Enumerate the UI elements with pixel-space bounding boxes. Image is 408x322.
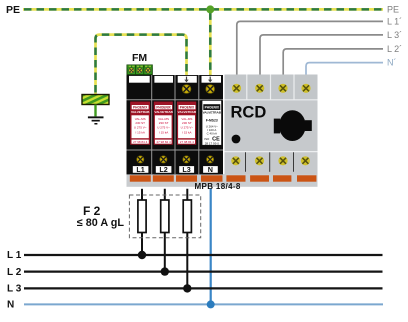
svg-text:≤ 80 A gL: ≤ 80 A gL [77, 217, 125, 229]
svg-text:U 275 V~: U 275 V~ [181, 126, 194, 130]
svg-text:VALVETRAB: VALVETRAB [178, 110, 197, 114]
svg-text:230 ST: 230 ST [182, 121, 192, 125]
svg-text:U 275 V~: U 275 V~ [134, 126, 147, 130]
svg-text:VALVETRAB: VALVETRAB [131, 110, 150, 114]
svg-text:VALVETRAB: VALVETRAB [154, 110, 173, 114]
svg-text:N: N [208, 165, 213, 174]
svg-text:U 275 V~: U 275 V~ [157, 126, 170, 130]
svg-text:L 2: L 2 [7, 267, 22, 278]
svg-text:ISO: ISO [204, 137, 210, 141]
svg-text:RCD: RCD [231, 104, 267, 122]
svg-text:N´: N´ [387, 58, 397, 68]
svg-text:PE: PE [6, 4, 20, 16]
svg-text:L 3: L 3 [7, 284, 22, 295]
svg-text:C 40 kA: C 40 kA [207, 132, 217, 136]
svg-text:I 15 kA: I 15 kA [136, 130, 145, 134]
svg-text:VALVETRAB: VALVETRAB [203, 111, 222, 115]
svg-text:27 98 84 4: 27 98 84 4 [180, 140, 195, 144]
svg-text:L 1´: L 1´ [387, 17, 402, 27]
svg-text:F 2: F 2 [83, 204, 101, 218]
svg-text:PHOENIX: PHOENIX [205, 106, 220, 110]
svg-text:PHOENIX: PHOENIX [133, 105, 148, 109]
svg-text:MPB 18/4-8: MPB 18/4-8 [195, 182, 241, 191]
svg-text:27 98 84 4: 27 98 84 4 [157, 140, 172, 144]
svg-text:L2: L2 [159, 165, 167, 174]
svg-text:I 15 kA: I 15 kA [182, 130, 191, 134]
svg-text:N: N [7, 299, 14, 310]
svg-text:28 17 99 0: 28 17 99 0 [205, 141, 220, 145]
svg-text:PHOENIX: PHOENIX [180, 105, 195, 109]
svg-text:27 98 84 4: 27 98 84 4 [133, 140, 148, 144]
svg-text:L3: L3 [182, 165, 190, 174]
svg-text:L 1: L 1 [7, 250, 22, 261]
svg-text:L 3´: L 3´ [387, 30, 402, 40]
svg-text:230 ST: 230 ST [159, 121, 169, 125]
svg-text:FM: FM [132, 52, 147, 64]
svg-text:F-MS23: F-MS23 [206, 118, 218, 122]
svg-text:PE: PE [387, 4, 399, 14]
svg-text:L 2´: L 2´ [387, 44, 402, 54]
svg-text:I 15 kA: I 15 kA [159, 130, 168, 134]
svg-text:PHOENIX: PHOENIX [156, 105, 171, 109]
svg-text:L1: L1 [136, 165, 144, 174]
svg-text:230 ST: 230 ST [135, 121, 145, 125]
